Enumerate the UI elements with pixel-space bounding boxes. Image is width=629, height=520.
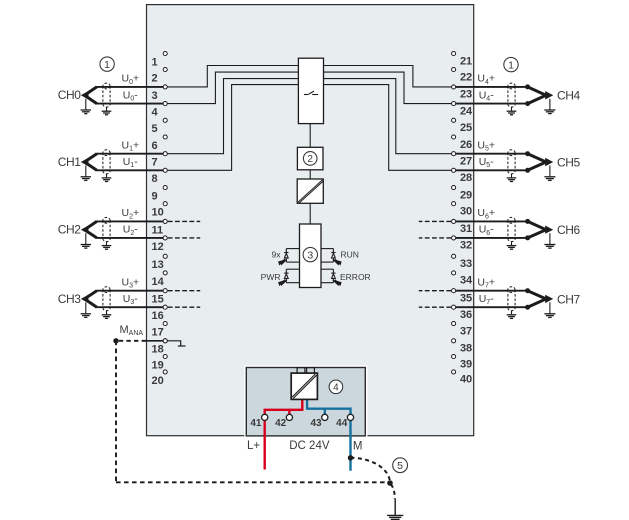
callout 1 (left) <box>100 57 114 71</box>
svg-text:15: 15 <box>152 294 164 306</box>
wire CH5+ internal routing <box>324 79 452 154</box>
shield CH7 <box>508 287 515 311</box>
wire CH3- dashed stub <box>168 306 200 308</box>
svg-text:16: 16 <box>152 310 164 322</box>
svg-text:DC 24V: DC 24V <box>289 440 330 452</box>
svg-text:25: 25 <box>460 122 472 134</box>
terminal 22 <box>452 67 473 83</box>
terminal 28 <box>452 168 473 184</box>
terminal 44 <box>336 414 353 429</box>
svg-text:24: 24 <box>460 105 473 117</box>
svg-text:CH0: CH0 <box>58 88 82 102</box>
wire CH7+ dashed stub <box>419 290 451 292</box>
svg-text:18: 18 <box>152 344 164 356</box>
wire CH0- internal routing <box>167 72 298 104</box>
wire CH2- dashed stub <box>168 237 200 239</box>
earth ground <box>387 515 403 519</box>
svg-text:22: 22 <box>460 71 472 83</box>
svg-text:6: 6 <box>152 140 158 152</box>
svg-text:2: 2 <box>152 72 158 84</box>
terminal 39 <box>452 354 473 370</box>
svg-text:40: 40 <box>460 374 472 386</box>
terminal 20 <box>152 370 168 387</box>
terminal 1 <box>152 51 168 68</box>
channel CH6 cable <box>456 219 553 241</box>
wire CH7- dashed stub <box>419 306 451 308</box>
terminal 5 <box>152 118 168 135</box>
node M junction <box>348 455 353 460</box>
svg-text:33: 33 <box>460 258 472 270</box>
wire block 2 to isolation <box>309 170 311 179</box>
channel CH3 cable <box>81 291 163 308</box>
svg-text:CH5: CH5 <box>557 155 581 169</box>
svg-text:2: 2 <box>307 154 313 165</box>
wire dashed to earth ground <box>391 484 395 499</box>
wire L+ (red) <box>265 399 303 470</box>
wire CH4+ internal routing <box>324 66 452 87</box>
svg-text:42: 42 <box>275 418 287 429</box>
callout 2 <box>303 152 317 166</box>
node M_ANA junction <box>113 338 118 343</box>
terminal 32 <box>452 236 473 252</box>
svg-text:5: 5 <box>397 460 403 472</box>
svg-text:RUN: RUN <box>341 249 359 259</box>
terminal 40 <box>452 370 473 386</box>
terminal 3 <box>152 85 168 102</box>
terminal 35 <box>452 289 473 305</box>
terminal 33 <box>452 254 473 270</box>
shield CH6 <box>508 217 515 241</box>
ground (CH5 cable) <box>544 177 555 181</box>
shield CH1 <box>103 150 110 174</box>
terminal 2 <box>152 67 168 84</box>
terminal 36 <box>452 305 473 321</box>
DC converter block <box>291 373 317 399</box>
isolation barrier block <box>297 179 323 203</box>
shield CH4 <box>508 83 515 107</box>
svg-text:10: 10 <box>152 207 164 219</box>
terminal 16 <box>152 305 168 322</box>
terminal 6 <box>152 135 168 152</box>
svg-text:27: 27 <box>460 156 472 168</box>
terminal 21 <box>452 51 473 67</box>
wire CH2 cable ground lead <box>85 233 87 244</box>
terminal 30 <box>452 202 473 218</box>
ADC block (2) <box>297 147 323 170</box>
ground (CH1 shield) <box>102 178 112 182</box>
terminal 23 <box>452 85 473 101</box>
wire CH0 cable ground lead <box>85 99 87 110</box>
terminal 12 <box>152 236 168 253</box>
switch symbol <box>304 91 318 94</box>
wire CH1+ internal routing <box>167 79 298 154</box>
svg-text:4: 4 <box>333 382 339 393</box>
svg-text:3: 3 <box>152 90 158 102</box>
svg-text:5: 5 <box>152 123 158 135</box>
terminal 19 <box>152 354 168 371</box>
svg-text:CH2: CH2 <box>58 223 82 237</box>
svg-text:CH1: CH1 <box>58 155 82 169</box>
wire CH0+ internal routing <box>167 66 298 87</box>
ground (CH5 shield) <box>507 178 517 182</box>
svg-text:32: 32 <box>460 240 472 252</box>
shield CH0 <box>103 83 110 107</box>
ground (CH4 shield) <box>507 111 517 115</box>
svg-text:20: 20 <box>152 375 164 387</box>
ground (CH6 cable) <box>544 245 555 249</box>
terminal 34 <box>452 271 474 287</box>
svg-text:1: 1 <box>152 56 158 68</box>
wire CH2+ dashed stub <box>168 220 200 222</box>
svg-text:19: 19 <box>152 359 164 371</box>
svg-text:L+: L+ <box>247 440 260 452</box>
ground (CH3 cable) <box>81 314 91 318</box>
wire L+ stub to terminal 42 <box>288 410 290 415</box>
wire CH3 cable ground lead <box>85 302 87 313</box>
channel CH2 cable <box>81 221 163 238</box>
svg-text:28: 28 <box>460 172 472 184</box>
terminal 11 <box>152 219 168 236</box>
ground (CH7 cable) <box>544 314 555 318</box>
terminal 18 circle overlay <box>163 339 167 343</box>
svg-text:31: 31 <box>460 223 472 235</box>
channel CH1 cable <box>81 154 163 171</box>
svg-text:7: 7 <box>152 157 158 169</box>
LED ERROR <box>321 269 336 283</box>
terminal 18 <box>152 339 168 356</box>
callout 3 <box>303 247 317 261</box>
power supply section <box>245 366 367 436</box>
svg-text:39: 39 <box>460 358 472 370</box>
terminal 17 <box>152 322 168 339</box>
shield CH5 <box>508 150 515 174</box>
svg-text:29: 29 <box>460 189 472 201</box>
terminal 15 <box>152 289 168 306</box>
terminal 42 <box>275 414 292 429</box>
LED RUN <box>321 249 336 263</box>
LED PWR <box>284 269 299 283</box>
svg-text:3: 3 <box>307 249 313 261</box>
svg-text:CH3: CH3 <box>58 292 82 306</box>
terminal 37 <box>452 322 473 338</box>
svg-text:34: 34 <box>460 275 473 287</box>
terminal 13 <box>152 254 168 271</box>
terminal 27 <box>452 152 473 168</box>
svg-text:1: 1 <box>104 59 110 71</box>
svg-text:12: 12 <box>152 241 164 253</box>
terminal 38 <box>452 339 473 355</box>
svg-text:4: 4 <box>152 107 159 119</box>
svg-text:CH6: CH6 <box>557 223 581 237</box>
terminal 4 <box>152 102 168 119</box>
svg-text:11: 11 <box>152 224 164 236</box>
svg-text:1: 1 <box>508 59 514 71</box>
svg-text:CH4: CH4 <box>557 89 581 103</box>
svg-text:13: 13 <box>152 259 164 271</box>
callout 1 (right) <box>504 57 518 71</box>
terminal 41 <box>250 414 267 429</box>
wire earth lead <box>394 499 396 515</box>
channel CH0 cable <box>81 87 163 104</box>
ground (CH1 cable) <box>81 177 91 181</box>
terminal 24 <box>452 102 474 118</box>
terminal 25 <box>452 118 473 134</box>
wire M_ANA dashed vertical <box>115 341 117 483</box>
wire M_ANA border to terminal <box>147 340 164 342</box>
wire M (blue) <box>307 399 350 471</box>
wire isolation to controller <box>309 203 311 224</box>
callout 4 <box>329 380 343 394</box>
svg-text:35: 35 <box>460 293 472 305</box>
callout 5 <box>393 458 408 473</box>
svg-text:14: 14 <box>152 276 165 288</box>
svg-text:36: 36 <box>460 309 472 321</box>
svg-text:44: 44 <box>336 418 348 429</box>
terminal 26 <box>452 135 473 151</box>
svg-text:38: 38 <box>460 343 472 355</box>
terminal 29 <box>452 186 473 202</box>
ground (CH2 cable) <box>81 245 91 249</box>
wire M_ANA dashed horizontal <box>116 481 387 483</box>
ground (CH0 cable) <box>81 110 91 114</box>
terminal 10 <box>152 202 168 219</box>
svg-text:8: 8 <box>152 173 158 185</box>
converter pin tabs <box>297 368 314 374</box>
svg-text:30: 30 <box>460 206 472 218</box>
ground (CH3 shield) <box>102 315 112 319</box>
svg-text:41: 41 <box>250 418 262 429</box>
wire CH1 cable ground lead <box>85 166 87 177</box>
wire CH4 cable ground lead <box>549 99 551 110</box>
multiplexer block <box>298 58 323 123</box>
terminal 31 <box>452 219 473 235</box>
svg-text:9: 9 <box>152 191 158 203</box>
terminal 14 <box>152 271 168 288</box>
wire CH6- dashed stub <box>419 237 451 239</box>
svg-text:21: 21 <box>460 55 472 67</box>
terminal 8 <box>152 168 168 185</box>
channel CH4 cable <box>456 84 553 106</box>
terminal 7 <box>152 152 168 169</box>
svg-text:23: 23 <box>460 89 472 101</box>
controller block (3) <box>300 224 322 288</box>
shield CH2 <box>103 217 110 241</box>
channel CH7 cable <box>456 288 553 310</box>
terminal 9 <box>152 186 168 203</box>
svg-text:26: 26 <box>460 139 472 151</box>
wire mux to block 2 <box>309 124 311 148</box>
wire CH5 cable ground lead <box>549 166 551 177</box>
shield CH3 <box>103 287 110 311</box>
channel CH5 cable <box>456 151 553 173</box>
svg-text:17: 17 <box>152 327 164 339</box>
ground (CH6 shield) <box>507 246 517 250</box>
svg-text:PWR: PWR <box>261 272 281 282</box>
svg-text:37: 37 <box>460 325 472 337</box>
svg-text:CH7: CH7 <box>557 292 581 306</box>
node earth junction <box>387 480 393 486</box>
ground (CH4 cable) <box>544 110 555 114</box>
wire CH6 cable ground lead <box>549 233 551 244</box>
wire CH5- internal routing <box>324 85 452 171</box>
module body <box>147 5 474 436</box>
wire M_ANA dashed to border <box>119 340 147 342</box>
ground (CH7 shield) <box>507 315 517 319</box>
wire CH7 cable ground lead <box>549 302 551 313</box>
terminal 43 <box>310 414 327 429</box>
wire dashed arc M to earth <box>351 458 391 483</box>
wire CH1- internal routing <box>167 85 298 171</box>
svg-text:9x: 9x <box>272 249 282 259</box>
ground (CH0 shield) <box>102 111 112 115</box>
svg-text:43: 43 <box>310 418 322 429</box>
LED 9x <box>284 249 299 263</box>
wire CH4- internal routing <box>324 72 452 104</box>
wire M stub to terminal 43 <box>324 409 326 415</box>
svg-text:ERROR: ERROR <box>340 272 371 282</box>
ground (CH2 shield) <box>102 246 112 250</box>
wire M_ANA internal stub <box>168 341 186 346</box>
svg-text:M: M <box>353 441 363 453</box>
wire CH3+ dashed stub <box>168 290 200 292</box>
wire CH6+ dashed stub <box>419 220 451 222</box>
